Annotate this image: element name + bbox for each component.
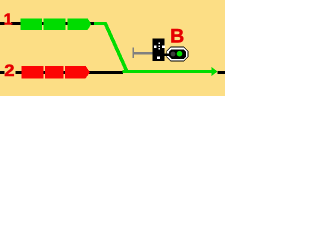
svg-text:B: B	[170, 26, 184, 48]
svg-text:2: 2	[4, 61, 15, 80]
svg-text:1: 1	[4, 12, 13, 29]
